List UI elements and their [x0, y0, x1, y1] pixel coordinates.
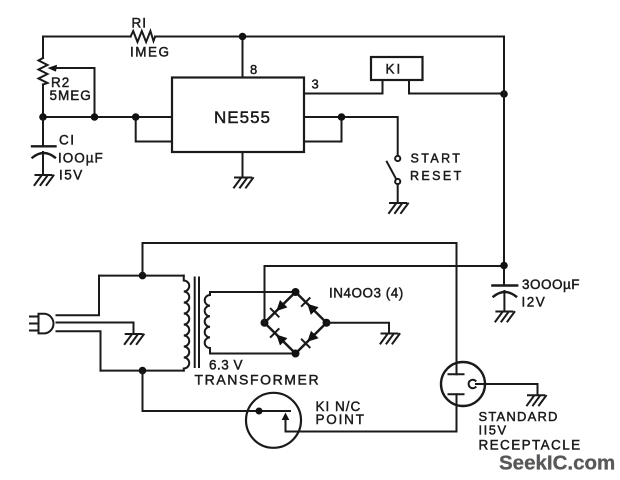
svg-text:RECEPTACLE: RECEPTACLE — [479, 438, 582, 453]
diode D4 bottom-right — [307, 331, 318, 342]
wire riser to K1 NC — [143, 371, 291, 411]
R2 wiper arrow — [48, 65, 58, 72]
wire pin 8 — [242, 37, 244, 78]
transformer T1 secondary winding — [205, 292, 210, 354]
svg-text:5MEG: 5MEG — [50, 88, 92, 103]
ground bridge — [381, 334, 400, 344]
wire K1 left lead — [382, 80, 384, 94]
wire left rail — [42, 37, 44, 59]
wire node row to NE555 pin — [43, 116, 172, 118]
svg-text:SeekIC.com: SeekIC.com — [499, 452, 615, 475]
diode D1 top-left — [276, 300, 287, 311]
wire pin 3 — [304, 93, 383, 95]
receptacle J1 circle — [441, 362, 485, 406]
diode D3 top-right — [307, 304, 318, 315]
node junction pin8 rail — [239, 33, 247, 41]
wire pins tie loop right — [304, 117, 342, 142]
node junction primary top — [139, 272, 147, 280]
receptacle top slot — [449, 373, 464, 375]
wire R2 bottom — [42, 85, 44, 118]
receptacle ground hole — [469, 380, 476, 388]
switch S1 start/reset — [395, 156, 400, 161]
AC plug P1 — [39, 314, 54, 334]
svg-text:I2V: I2V — [522, 295, 547, 310]
wire K1 right lead — [409, 80, 504, 94]
capacitor C1 — [42, 117, 44, 146]
wire riser to ac rail — [142, 243, 144, 276]
svg-text:NE555: NE555 — [214, 108, 271, 127]
ground plug neutral — [125, 334, 144, 344]
diode D2 bottom-left — [276, 335, 287, 346]
svg-text:3OOOµF: 3OOOµF — [522, 277, 580, 292]
receptacle bottom slot — [449, 393, 464, 395]
relay contact K1 N/C point circle — [246, 393, 301, 448]
ground below NE555 — [234, 178, 253, 188]
wire top rail left segment — [43, 36, 131, 38]
svg-text:KI: KI — [386, 62, 403, 77]
node junction K1 right rail — [500, 90, 508, 98]
svg-text:POINT: POINT — [316, 412, 366, 427]
node junction left rail — [39, 113, 47, 121]
node bridge right — [323, 319, 331, 327]
svg-text:RI: RI — [132, 16, 148, 31]
wire cord upper — [57, 276, 100, 316]
wire ac top rail — [143, 242, 457, 244]
node junction wiper — [91, 113, 99, 121]
svg-text:3: 3 — [312, 77, 319, 92]
wire right rail — [503, 37, 505, 286]
svg-text:IMEG: IMEG — [130, 45, 171, 60]
node junction right pins — [338, 113, 346, 121]
svg-text:6.3 V: 6.3 V — [209, 358, 243, 373]
wire cord middle to ground — [57, 323, 134, 334]
ground below 3000uF — [495, 312, 514, 322]
node bridge bottom — [292, 350, 300, 358]
node junction pin loop — [132, 113, 140, 121]
wire pins 2-6 tie loop — [136, 117, 172, 142]
svg-text:TRANSFORMER: TRANSFORMER — [195, 372, 321, 388]
svg-text:II5V: II5V — [479, 423, 508, 438]
node bridge left — [261, 319, 269, 327]
wire primary bottom — [101, 370, 184, 372]
ground below switch — [389, 203, 408, 213]
svg-text:IN4OO3 (4): IN4OO3 (4) — [329, 286, 404, 301]
wire receptacle top riser — [456, 243, 458, 374]
wire cord lower — [57, 331, 101, 370]
node junction primary bottom — [139, 367, 147, 375]
ground receptacle — [527, 395, 546, 405]
svg-text:START: START — [411, 152, 463, 166]
wire pin 1 — [242, 152, 244, 178]
node junction filter cap — [500, 262, 508, 270]
svg-text:IOOµF: IOOµF — [58, 151, 104, 166]
wire right pin row — [304, 117, 398, 156]
svg-text:CI: CI — [59, 133, 76, 148]
svg-text:8: 8 — [250, 62, 257, 77]
node junction inside contact — [256, 408, 263, 415]
wire bottom rail — [286, 394, 457, 431]
wire bridge plus output — [265, 266, 505, 323]
wire secondary top to bridge — [210, 291, 296, 293]
op-amp timer NE555 U1 — [172, 78, 304, 153]
ground below C1 — [35, 175, 54, 185]
transformer T1 primary winding — [184, 276, 190, 371]
resistor R1 — [131, 31, 156, 42]
bridge rectifier D1-D4 diamond — [265, 292, 327, 354]
wire secondary bottom to bridge — [210, 353, 296, 355]
node bridge top — [292, 288, 300, 296]
wire primary top — [99, 275, 184, 277]
wire top rail right segment — [155, 36, 504, 38]
capacitor C2 3000uF — [492, 284, 517, 286]
potentiometer R2 — [39, 58, 48, 85]
wire bridge minus to ground — [327, 323, 390, 333]
contact arrow — [282, 413, 290, 421]
svg-text:I5V: I5V — [59, 168, 84, 183]
transformer T1 core — [195, 278, 199, 368]
svg-text:RESET: RESET — [410, 169, 464, 183]
wire receptacle ground — [476, 384, 538, 395]
relay coil K1 — [371, 57, 423, 80]
